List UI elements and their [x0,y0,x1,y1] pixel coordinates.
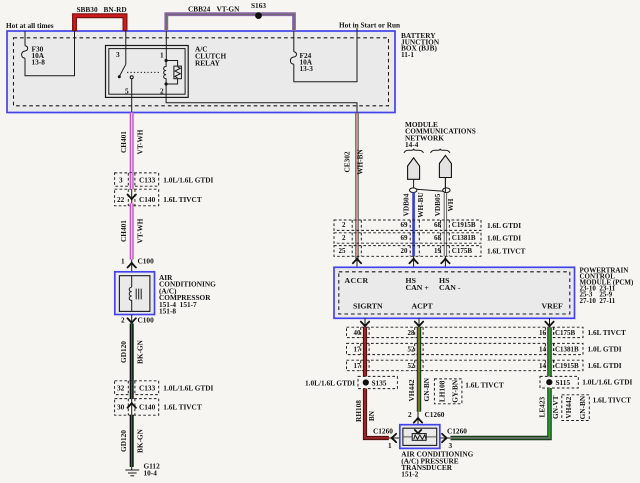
svg-text:52: 52 [408,362,416,370]
svg-text:2: 2 [121,316,125,325]
svg-text:VT-GN: VT-GN [217,5,241,14]
svg-text:25: 25 [339,247,347,255]
svg-text:13-8: 13-8 [32,58,46,67]
svg-text:GD120: GD120 [119,341,128,363]
svg-text:1.6L TIVCT: 1.6L TIVCT [588,328,627,337]
svg-text:10-4: 10-4 [144,469,158,478]
svg-text:2: 2 [342,234,346,242]
svg-text:Hot at all times: Hot at all times [6,21,54,30]
svg-text:1.6L GTDI: 1.6L GTDI [487,221,521,230]
svg-text:CBB24: CBB24 [188,5,211,14]
svg-text:GN-BN: GN-BN [578,395,587,419]
svg-text:1.0L/1.6L GTDI: 1.0L/1.6L GTDI [305,378,355,387]
svg-text:CE302: CE302 [343,151,352,172]
svg-text:BN-RD: BN-RD [104,5,127,14]
svg-text:GN-BN: GN-BN [422,377,431,401]
svg-text:69: 69 [401,234,409,242]
svg-text:C175B: C175B [452,247,473,255]
svg-text:C133: C133 [139,176,156,185]
svg-text:C1915B: C1915B [555,362,579,370]
svg-text:BN: BN [367,410,376,421]
svg-text:1: 1 [121,257,125,266]
svg-text:11-1: 11-1 [401,50,414,59]
svg-text:VT-WH: VT-WH [135,129,144,154]
svg-text:1: 1 [160,50,164,59]
svg-text:19: 19 [434,247,442,255]
svg-text:3: 3 [119,176,123,185]
svg-text:C100: C100 [138,316,155,325]
svg-text:C1260: C1260 [447,426,467,435]
svg-text:CH401: CH401 [119,131,128,153]
svg-text:ACCR: ACCR [345,276,369,285]
svg-text:1.6L TIVCT: 1.6L TIVCT [465,381,504,390]
svg-text:5: 5 [125,87,129,96]
svg-text:C1260: C1260 [425,410,445,419]
svg-text:3: 3 [449,441,453,450]
svg-text:SIGRTN: SIGRTN [353,302,383,311]
svg-text:GN-VT: GN-VT [551,395,560,419]
svg-text:14: 14 [539,362,547,370]
svg-text:2: 2 [408,410,412,419]
svg-text:VH442: VH442 [407,379,416,401]
svg-text:14: 14 [539,346,547,354]
svg-text:40: 40 [354,329,362,337]
svg-text:VDB04: VDB04 [401,193,410,216]
svg-text:C140: C140 [139,195,156,204]
svg-text:WH-BN: WH-BN [356,149,365,175]
svg-text:28: 28 [408,329,416,337]
svg-text:2: 2 [160,87,164,96]
svg-text:52: 52 [408,346,416,354]
svg-text:1.0L/1.6L GTDI: 1.0L/1.6L GTDI [163,176,213,185]
svg-text:LE423: LE423 [537,397,546,418]
svg-text:17: 17 [354,362,362,370]
svg-text:1: 1 [388,441,392,450]
svg-text:WH: WH [446,198,455,211]
svg-text:20: 20 [401,247,409,255]
svg-text:1.6L TIVCT: 1.6L TIVCT [593,395,632,404]
svg-text:RH108: RH108 [354,400,363,422]
svg-text:C100: C100 [138,257,155,266]
svg-text:2: 2 [342,221,346,229]
svg-text:16: 16 [539,329,547,337]
svg-text:VH442: VH442 [564,396,573,418]
svg-text:GY-BN: GY-BN [451,379,460,403]
svg-text:1.0L GTDI: 1.0L GTDI [487,234,521,243]
svg-text:S135: S135 [372,378,387,387]
svg-text:14-4: 14-4 [405,140,419,149]
svg-text:BK-GN: BK-GN [135,428,144,453]
svg-text:C1915B: C1915B [452,221,476,229]
svg-text:C140: C140 [139,403,156,412]
svg-text:C1381B: C1381B [555,346,579,354]
svg-text:1.6L GTDI: 1.6L GTDI [588,361,622,370]
svg-text:C1260: C1260 [373,426,393,435]
svg-text:1.6L TIVCT: 1.6L TIVCT [163,403,202,412]
svg-text:ACPT: ACPT [412,302,434,311]
svg-text:27-10 27-11: 27-10 27-11 [580,297,616,305]
svg-text:CAN +: CAN + [406,283,430,292]
svg-text:1.0L/1.6L GTDI: 1.0L/1.6L GTDI [163,384,213,393]
svg-text:1.0L/1.6L GTDI: 1.0L/1.6L GTDI [582,378,632,387]
svg-text:1.6L TIVCT: 1.6L TIVCT [163,195,202,204]
svg-text:CAN -: CAN - [439,283,461,292]
svg-text:30: 30 [117,403,125,412]
svg-text:C133: C133 [139,384,156,393]
svg-text:VT-WH: VT-WH [135,218,144,243]
svg-text:S115: S115 [556,378,571,387]
svg-text:CH401: CH401 [119,220,128,242]
svg-text:1.0L GTDI: 1.0L GTDI [588,345,622,354]
svg-text:22: 22 [117,195,125,204]
svg-text:68: 68 [434,234,442,242]
svg-text:69: 69 [401,221,409,229]
svg-text:GD120: GD120 [119,430,128,452]
svg-text:BK-GN: BK-GN [135,339,144,364]
svg-text:SBB30: SBB30 [77,5,98,14]
svg-text:151-8: 151-8 [159,307,176,316]
svg-text:68: 68 [434,221,442,229]
svg-text:151-2: 151-2 [401,470,418,479]
svg-text:Hot in Start or Run: Hot in Start or Run [339,21,400,30]
svg-text:VREF: VREF [542,302,563,311]
svg-text:17: 17 [354,346,362,354]
svg-text:13-3: 13-3 [300,64,314,73]
svg-text:S163: S163 [251,1,266,10]
svg-text:LH108: LH108 [438,380,447,402]
svg-text:3: 3 [116,50,120,59]
svg-text:32: 32 [117,384,125,393]
svg-text:C1381B: C1381B [452,234,476,242]
svg-text:RELAY: RELAY [195,58,221,67]
svg-text:VDB05: VDB05 [433,193,442,216]
svg-text:WH-BU: WH-BU [416,192,425,218]
svg-text:1.6L TIVCT: 1.6L TIVCT [487,247,526,256]
svg-text:C175B: C175B [555,329,576,337]
